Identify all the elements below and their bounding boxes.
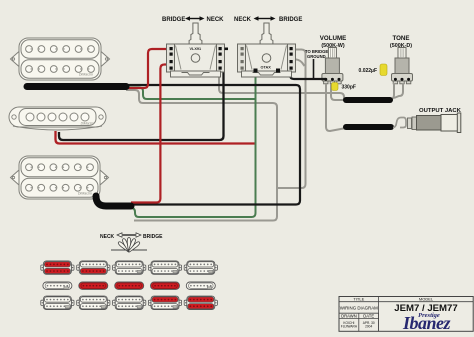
svg-text:TITLE: TITLE [353,296,364,301]
svg-text:NECK: NECK [100,234,115,240]
svg-text:DiMarzio: DiMarzio [79,73,93,77]
svg-text:VOLUME: VOLUME [320,35,346,42]
svg-text:Prestige: Prestige [418,312,440,319]
svg-text:GROUND: GROUND [307,54,326,59]
svg-text:VLX91: VLX91 [190,47,202,51]
svg-text:2004: 2004 [365,325,372,329]
svg-text:NECK: NECK [234,17,252,23]
svg-text:TONE: TONE [392,35,409,42]
svg-text:(500K-D): (500K-D) [390,43,412,49]
svg-text:OUTPUT JACK: OUTPUT JACK [419,108,462,114]
svg-text:FUJIWARA: FUJIWARA [341,325,358,329]
svg-text:DiMarzio: DiMarzio [81,122,94,126]
svg-text:DRAWN: DRAWN [341,313,357,318]
svg-text:DATE: DATE [363,313,374,318]
svg-text:330pF: 330pF [342,85,356,91]
svg-text:DiMarzio: DiMarzio [78,192,92,196]
svg-text:BRIDGE: BRIDGE [143,234,163,240]
svg-text:OTAX: OTAX [261,66,272,70]
svg-text:BRIDGE: BRIDGE [279,17,302,23]
svg-text:BRIDGE: BRIDGE [162,17,185,23]
svg-text:WIRING DIAGRAM: WIRING DIAGRAM [340,306,378,311]
svg-text:NECK: NECK [207,17,225,23]
svg-text:0.022µF: 0.022µF [359,68,377,74]
svg-text:MODEL: MODEL [419,296,434,301]
